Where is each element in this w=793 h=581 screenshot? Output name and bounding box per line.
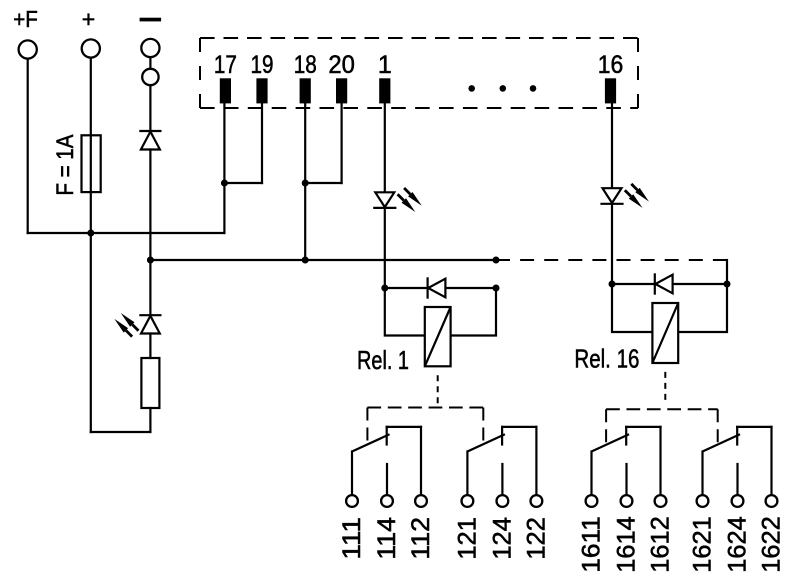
- bus2 dashed continuation: [496, 259, 727, 261]
- contact NC wire 112: [420, 427, 422, 495]
- junction minus bus2: [147, 257, 154, 264]
- LED 16 arrow 2: [625, 190, 643, 208]
- LED power indicator: [141, 316, 160, 334]
- junction 17-19 link: [221, 180, 228, 187]
- contact bar 112: [387, 426, 421, 428]
- contact common wire 121: [466, 452, 468, 496]
- contact arm 121: [467, 434, 505, 451]
- LED power indicator bar: [140, 314, 160, 316]
- wire between minus circles: [149, 57, 151, 69]
- terminal circle 1611: [586, 495, 598, 507]
- contact bar 122: [502, 426, 536, 428]
- terminal circle 122: [531, 495, 543, 507]
- terminal pad 19: [256, 78, 267, 103]
- terminal circle 124: [497, 495, 509, 507]
- terminal circle 1612: [655, 495, 667, 507]
- LED 1: [375, 192, 394, 207]
- wire terminal 19 down: [261, 103, 263, 183]
- contact group dashed box Rel.16: [606, 408, 718, 410]
- wire +F down to bus1: [27, 59, 29, 233]
- contact NC stub 1611: [625, 427, 627, 445]
- LED power arrow 1: [121, 313, 139, 331]
- svg-text:+: +: [82, 6, 95, 32]
- junction 18-20 link: [302, 180, 309, 187]
- svg-text:1622: 1622: [758, 516, 786, 573]
- contact common wire 1621: [701, 452, 703, 496]
- terminal circle 112: [415, 495, 427, 507]
- terminal pad 18: [300, 78, 311, 103]
- LED power arrow 2: [114, 319, 132, 337]
- contact common wire 1611: [590, 452, 592, 496]
- svg-text:18: 18: [294, 51, 317, 79]
- svg-text:124: 124: [488, 517, 516, 560]
- svg-text:Rel. 16: Rel. 16: [574, 344, 639, 374]
- LED 16 arrow 1: [631, 184, 649, 202]
- svg-text:F = 1A: F = 1A: [52, 135, 79, 196]
- contact NC wire 1612: [659, 427, 661, 495]
- freewheel diode D16 bar: [654, 274, 656, 293]
- terminal circle +F: [19, 40, 37, 58]
- contact NO wire 1624: [736, 464, 738, 495]
- relay coil Rel. 16: [652, 303, 678, 363]
- bus2 minus rail: [150, 259, 496, 261]
- terminal circle 1624: [732, 495, 744, 507]
- svg-text:1621: 1621: [689, 516, 717, 573]
- contact arm 111: [352, 434, 390, 451]
- terminal circle 111: [346, 495, 358, 507]
- svg-text:1624: 1624: [724, 516, 752, 573]
- contact NO wire 1614: [625, 464, 627, 495]
- wire terminal 18 down: [304, 103, 306, 260]
- contact arm 1611: [592, 434, 630, 451]
- contact group dashed box Rel.1: [367, 407, 483, 409]
- junction LED 16 diode line: [609, 281, 616, 288]
- LED 16: [603, 188, 622, 203]
- LED 1 cathode bar: [374, 207, 395, 209]
- svg-text:1614: 1614: [613, 516, 641, 573]
- terminal circle 114: [381, 495, 393, 507]
- wire resistor to return: [149, 408, 151, 432]
- svg-text:122: 122: [522, 517, 550, 560]
- freewheel diode D1 bar: [427, 278, 429, 297]
- junction bus1 fuse: [87, 230, 94, 237]
- wire link 17-19: [224, 182, 262, 184]
- wire coil right 1: [451, 288, 496, 336]
- contact NO wire 114: [386, 464, 388, 495]
- svg-text:16: 16: [598, 51, 624, 79]
- junction diode line right 1: [493, 285, 500, 292]
- terminal circle 121: [462, 495, 474, 507]
- wire minus rail down: [149, 150, 151, 316]
- diode D0: [141, 132, 160, 150]
- svg-text:111: 111: [338, 517, 366, 560]
- terminal pad 20: [336, 78, 347, 103]
- freewheel diode D1: [428, 279, 445, 298]
- svg-text:+F: +F: [13, 6, 38, 32]
- contact NC stub 111: [386, 427, 388, 445]
- wire bus2 corner to relay16: [726, 260, 728, 284]
- relay coil Rel. 1: [425, 307, 451, 366]
- contact NC stub 121: [501, 427, 503, 445]
- svg-text:20: 20: [328, 51, 355, 79]
- terminal circle 1621: [697, 495, 709, 507]
- wire terminal to LED 1: [384, 103, 386, 192]
- wire coil left 16: [612, 284, 652, 332]
- junction LED 1 diode line: [381, 285, 388, 292]
- freewheel diode line 1: [385, 287, 496, 289]
- junction diode line right 16: [724, 281, 731, 288]
- svg-text:Rel. 1: Rel. 1: [357, 345, 409, 375]
- wire link 18-20: [305, 182, 341, 184]
- bus1 fused plus rail: [28, 232, 225, 234]
- LED 1 arrow 2: [398, 194, 416, 212]
- terminal pad 16: [605, 78, 616, 103]
- wire + rail through fuse: [90, 58, 92, 432]
- contact NO wire 124: [501, 464, 503, 495]
- resistor R1: [141, 358, 159, 408]
- diode D0 cathode bar: [140, 130, 160, 132]
- contact NC stub 1621: [736, 427, 738, 445]
- terminal pad 17: [220, 78, 231, 103]
- LED 1 arrow 1: [404, 188, 422, 206]
- terminal circle 1614: [621, 495, 633, 507]
- contact NC wire 1622: [770, 427, 772, 495]
- svg-text:121: 121: [453, 517, 481, 560]
- continuation dots: [468, 85, 475, 92]
- contact bar 1622: [737, 426, 771, 428]
- contact arm 1621: [703, 434, 741, 451]
- terminal circle minus lower: [142, 69, 158, 85]
- wire terminal 20 down: [341, 103, 343, 183]
- svg-text:1611: 1611: [578, 516, 606, 573]
- svg-text:112: 112: [407, 517, 435, 560]
- freewheel diode D16: [655, 275, 672, 294]
- wire terminal to LED 16: [611, 103, 613, 188]
- wire coil left 1: [385, 288, 425, 336]
- wire minus to diode D0: [149, 85, 151, 131]
- wire terminal 17 down: [223, 103, 225, 233]
- dashed link coil to contacts 16: [664, 372, 666, 404]
- svg-text:1: 1: [378, 51, 392, 79]
- LED 16 cathode bar: [602, 203, 623, 205]
- wire LED to resistor: [149, 334, 151, 359]
- svg-text:114: 114: [373, 517, 401, 560]
- svg-text:19: 19: [251, 51, 274, 79]
- terminal pad 1: [379, 78, 390, 103]
- fuse F1: [82, 135, 101, 192]
- dashed link coil to contacts 1: [437, 375, 439, 407]
- connector outline dashed box: [200, 37, 638, 39]
- svg-text:1612: 1612: [647, 516, 675, 573]
- terminal circle minus upper: [141, 39, 159, 57]
- wire coil right 16: [678, 284, 727, 332]
- wire bottom return: [91, 431, 151, 433]
- junction bus2 relay1: [493, 257, 500, 264]
- junction 18 bus2: [302, 257, 309, 264]
- terminal circle +: [82, 39, 100, 57]
- wire LED 1 down: [384, 208, 386, 288]
- svg-text:17: 17: [214, 51, 237, 79]
- contact common wire 111: [351, 452, 353, 496]
- wire LED 16 down: [611, 204, 613, 284]
- terminal circle 1622: [766, 495, 778, 507]
- terminal label minus: [140, 18, 162, 22]
- contact NC wire 122: [535, 427, 537, 495]
- contact bar 1612: [626, 426, 660, 428]
- freewheel diode line 16: [612, 283, 727, 285]
